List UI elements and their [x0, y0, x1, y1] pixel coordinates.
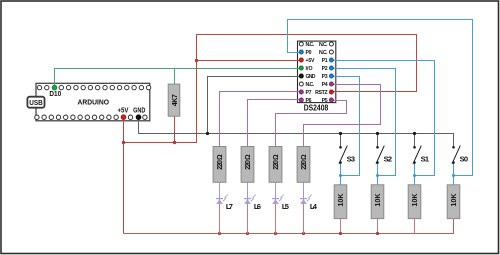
svg-text:RSTZ: RSTZ	[315, 90, 328, 96]
svg-text:L5: L5	[282, 202, 289, 211]
svg-text:P4: P4	[322, 82, 328, 88]
svg-text:P1: P1	[322, 58, 328, 64]
svg-text:USB: USB	[29, 98, 43, 107]
svg-text:220 Ω: 220 Ω	[301, 154, 308, 170]
svg-text:N.C.: N.C.	[319, 42, 328, 48]
svg-text:ARDUINO: ARDUINO	[78, 98, 110, 107]
svg-text:N.C.: N.C.	[306, 42, 315, 48]
svg-text:S3: S3	[347, 154, 356, 163]
svg-text:P0: P0	[306, 50, 312, 56]
svg-text:GND: GND	[133, 105, 146, 114]
svg-text:S2: S2	[384, 154, 393, 163]
svg-text:L6: L6	[254, 202, 261, 211]
svg-text:10K: 10K	[412, 194, 419, 207]
svg-text:S1: S1	[421, 154, 430, 163]
svg-text:10K: 10K	[451, 194, 458, 207]
svg-text:I/O: I/O	[306, 66, 313, 72]
svg-text:L7: L7	[226, 202, 233, 211]
svg-text:P2: P2	[322, 66, 328, 72]
svg-text:10K: 10K	[375, 194, 382, 207]
svg-text:220 Ω: 220 Ω	[273, 154, 280, 170]
svg-text:4K7: 4K7	[172, 94, 179, 106]
svg-text:N.C.: N.C.	[306, 82, 315, 88]
svg-text:P3: P3	[322, 74, 328, 80]
svg-text:N.C.: N.C.	[319, 50, 328, 56]
svg-text:+5V: +5V	[306, 58, 316, 64]
svg-text:DS2408: DS2408	[304, 103, 329, 112]
svg-text:GND: GND	[306, 74, 316, 80]
svg-text:D10: D10	[49, 89, 61, 98]
svg-text:P7: P7	[306, 90, 312, 96]
svg-text:10K: 10K	[338, 194, 345, 207]
svg-text:S0: S0	[460, 154, 469, 163]
svg-text:+5V: +5V	[118, 105, 129, 114]
svg-text:L4: L4	[310, 202, 318, 211]
svg-text:220 Ω: 220 Ω	[245, 154, 252, 170]
svg-text:220 Ω: 220 Ω	[217, 154, 224, 170]
